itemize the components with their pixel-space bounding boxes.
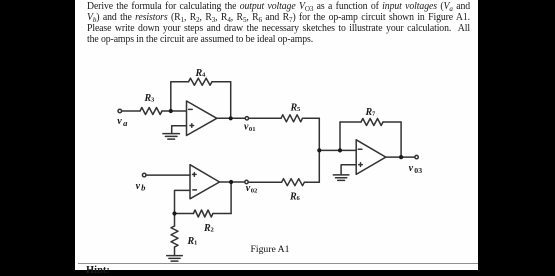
ground G3	[333, 175, 349, 181]
svg-text:R6: R6	[289, 192, 300, 203]
junction summing node dot	[317, 148, 321, 152]
svg-text:R3: R3	[144, 93, 155, 104]
svg-text:v03: v03	[409, 163, 423, 175]
node v02 terminal	[245, 180, 248, 183]
op-amp U1	[187, 101, 217, 136]
wire feedback node up to R7	[339, 122, 341, 150]
U1 minus pin mark	[189, 108, 193, 110]
hint text clipped at bottom	[86, 265, 110, 276]
node vb terminal	[142, 173, 146, 177]
wire node A up to R4	[170, 82, 172, 111]
svg-text:vb: vb	[136, 181, 147, 193]
wire R7 right	[383, 121, 401, 123]
svg-text:R7: R7	[365, 107, 376, 118]
wire to R4 left	[171, 81, 189, 83]
junction feedback tap dot	[338, 148, 342, 152]
node B junction to R1 R2	[175, 213, 194, 215]
wire U2 output	[220, 181, 245, 183]
junction node A dot	[169, 109, 173, 113]
junction U2 output dot	[229, 180, 233, 184]
wire summing node to U3	[319, 149, 356, 151]
svg-text:va: va	[117, 116, 128, 128]
wire R1 top	[174, 214, 176, 227]
resistor R5	[281, 115, 302, 122]
wire v02 to R6	[248, 181, 281, 183]
wire to R7 left	[340, 121, 361, 123]
svg-text:v01: v01	[244, 121, 255, 133]
wire U3 output	[386, 156, 415, 158]
wire R3 to node A	[162, 110, 171, 112]
resistor R3	[140, 108, 162, 115]
wire R4 right to output branch	[212, 81, 231, 83]
wire R5 to summing rail	[303, 117, 320, 119]
U2 plus pin mark	[193, 173, 197, 177]
junction U3 output dot	[399, 155, 403, 159]
svg-text:R4: R4	[195, 68, 206, 79]
wire R2 to output branch	[213, 213, 231, 215]
svg-text:v02: v02	[246, 183, 258, 195]
svg-text:R5: R5	[290, 102, 301, 113]
wire U2 minus input left and down	[175, 190, 191, 213]
wire va to R3	[122, 110, 140, 112]
U1 plus pin mark	[190, 124, 194, 128]
resistor R1	[171, 226, 178, 247]
resistor R6	[282, 179, 305, 186]
op-amp U3	[356, 140, 386, 175]
ground G2	[167, 256, 183, 262]
node v01 terminal	[245, 117, 248, 120]
wire down to U3 output node	[400, 122, 402, 157]
bottom rule	[78, 263, 478, 264]
node v03 terminal	[415, 155, 418, 158]
wire v01 to R5	[249, 117, 281, 119]
wire summing rail vertical	[318, 118, 320, 182]
wire U1 plus input to ground	[172, 126, 187, 133]
resistor R2	[193, 210, 213, 217]
ground G1	[163, 134, 180, 140]
U2 minus pin mark	[193, 189, 197, 191]
resistor R4	[189, 78, 213, 85]
wire down to U1 output node	[230, 82, 232, 119]
U3 minus pin mark	[358, 148, 362, 150]
wire R1 bottom to ground	[174, 247, 176, 255]
op-amp U2	[190, 165, 220, 199]
wire R6 to summing rail	[304, 181, 319, 183]
node va terminal	[118, 109, 122, 113]
wire up to U2 output node	[230, 182, 232, 214]
resistor R7	[361, 119, 383, 126]
wire vb to U2 plus input	[146, 174, 190, 176]
wire node A to U1 inverting input	[171, 110, 187, 112]
U3 plus pin mark	[359, 163, 363, 167]
wire U1 output	[217, 117, 245, 119]
wire U3 plus input to ground	[341, 165, 356, 175]
junction node B dot	[172, 211, 176, 215]
figure caption	[251, 244, 290, 255]
svg-text:R2: R2	[203, 223, 214, 234]
svg-text:R1: R1	[187, 236, 198, 247]
junction U1 output dot	[229, 116, 233, 120]
